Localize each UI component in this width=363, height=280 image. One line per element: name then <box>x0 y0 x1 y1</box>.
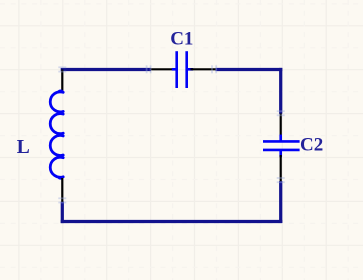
coil junction blobs <box>57 90 64 180</box>
pin hotspot marker (C1 pin2 end) <box>212 65 216 73</box>
pin hotspot marker (L pin1 end, top corner) <box>58 67 66 71</box>
svg-text:C2: C2 <box>300 134 323 155</box>
plate stub left <box>172 68 177 71</box>
wire top: right segment <box>216 68 283 71</box>
pin 1 (left) <box>150 68 173 70</box>
plate right <box>185 51 188 88</box>
wire top: left segment <box>61 68 151 71</box>
pin 2 (bottom) <box>280 155 282 181</box>
pin hotspot marker (L pin2 end) <box>58 198 66 202</box>
capacitor C1 <box>150 51 215 88</box>
plate stub top <box>279 135 282 141</box>
wire right: lower segment <box>279 181 282 223</box>
pin 1 (top) <box>280 114 282 137</box>
pin 1 (top) <box>61 70 63 92</box>
pin 2 (bottom) <box>61 178 63 202</box>
coil arcs <box>50 92 63 177</box>
plate left <box>175 51 178 88</box>
wire left: lower segment <box>61 202 64 224</box>
inductor L <box>50 70 63 203</box>
pin 2 (right) <box>190 68 215 70</box>
pin hotspot marker (C2 pin2 end) <box>277 178 285 182</box>
plate stub right <box>187 68 193 71</box>
svg-text:L: L <box>17 137 30 158</box>
svg-text:C1: C1 <box>170 29 193 50</box>
capacitor C2 <box>263 114 300 182</box>
wire right: upper segment <box>279 68 282 114</box>
plate top <box>263 140 300 143</box>
plate stub bottom <box>279 151 282 158</box>
wire bottom <box>61 220 283 223</box>
pin hotspot marker (C2 pin1 end) <box>277 111 285 115</box>
pin hotspot marker (C1 pin1 end) <box>147 65 151 73</box>
plate bottom <box>263 149 300 152</box>
